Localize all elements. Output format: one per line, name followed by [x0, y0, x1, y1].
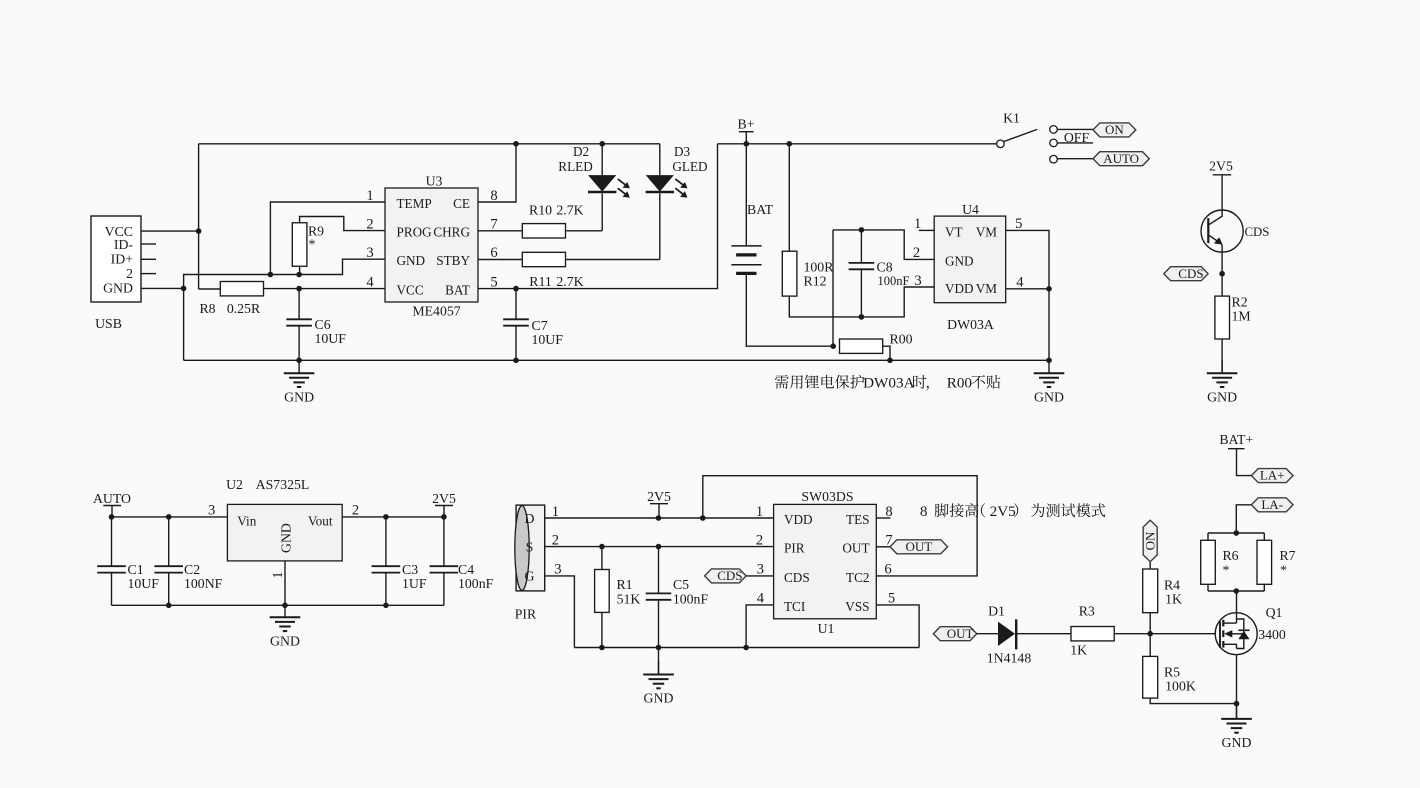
svg-text:100K: 100K [1165, 678, 1196, 693]
svg-text:R11: R11 [529, 274, 552, 289]
svg-text:AUTO: AUTO [1103, 151, 1139, 166]
svg-text:2: 2 [913, 245, 920, 261]
svg-text:1M: 1M [1232, 308, 1251, 323]
svg-text:D: D [525, 511, 535, 526]
svg-text:AS7325L: AS7325L [256, 477, 310, 492]
svg-text:GND: GND [103, 281, 133, 296]
svg-text:R00: R00 [890, 331, 913, 346]
svg-text:2V5: 2V5 [990, 503, 1016, 520]
svg-text:4: 4 [757, 591, 765, 607]
svg-text:PIR: PIR [784, 541, 805, 556]
svg-text:51K: 51K [617, 591, 641, 606]
svg-text:R6: R6 [1222, 548, 1238, 563]
svg-text:5: 5 [888, 591, 895, 607]
svg-text:C8: C8 [877, 260, 893, 275]
svg-text:OUT: OUT [905, 539, 932, 554]
svg-text:GND: GND [279, 523, 294, 553]
svg-text:GND: GND [1207, 389, 1237, 404]
svg-text:C5: C5 [673, 577, 689, 592]
svg-text:BAT: BAT [445, 283, 470, 298]
svg-text:2V5: 2V5 [647, 489, 671, 504]
svg-text:R3: R3 [1079, 603, 1095, 618]
svg-text:ID-: ID- [114, 237, 134, 252]
svg-text:R8: R8 [199, 301, 215, 316]
svg-text:USB: USB [95, 316, 122, 331]
svg-text:CDS: CDS [1178, 266, 1203, 281]
svg-text:6: 6 [490, 245, 497, 261]
svg-text:R2: R2 [1232, 294, 1248, 309]
svg-text:OFF: OFF [1064, 130, 1090, 145]
svg-text:U1: U1 [818, 621, 835, 636]
svg-text:7: 7 [490, 216, 497, 232]
svg-text:R7: R7 [1279, 548, 1295, 563]
svg-text:2V5: 2V5 [432, 491, 456, 506]
svg-text:ON: ON [1105, 122, 1124, 137]
svg-text:DW03A: DW03A [863, 375, 914, 392]
svg-text:1UF: 1UF [402, 576, 427, 591]
svg-text:BAT+: BAT+ [1219, 432, 1253, 447]
svg-text:C2: C2 [184, 562, 200, 577]
svg-text:D3: D3 [674, 144, 691, 159]
svg-text:2: 2 [126, 266, 133, 281]
svg-text:VSS: VSS [845, 599, 869, 614]
svg-text:2.7K: 2.7K [556, 203, 583, 218]
svg-text:TC2: TC2 [846, 570, 869, 585]
svg-text:U2: U2 [226, 477, 243, 492]
svg-text:GND: GND [1034, 389, 1064, 404]
svg-text:C1: C1 [128, 562, 144, 577]
svg-text:R12: R12 [804, 273, 827, 288]
svg-text:ON: ON [1142, 531, 1157, 550]
svg-text:CDS: CDS [717, 568, 742, 583]
svg-text:*: * [1280, 562, 1287, 577]
svg-text:STBY: STBY [436, 253, 470, 268]
svg-text:C7: C7 [532, 318, 548, 333]
svg-text:GLED: GLED [672, 159, 707, 174]
svg-text:TCI: TCI [784, 599, 805, 614]
svg-text:CHRG: CHRG [433, 225, 470, 240]
svg-text:VM: VM [976, 224, 998, 239]
svg-text:VM: VM [976, 281, 998, 296]
svg-text:Vin: Vin [237, 513, 256, 528]
svg-text:SW03DS: SW03DS [801, 489, 853, 504]
svg-text:5: 5 [1015, 216, 1022, 232]
svg-text:100nF: 100nF [458, 576, 494, 591]
svg-text:BAT: BAT [747, 202, 774, 217]
svg-text:PROG: PROG [397, 225, 433, 240]
svg-text:1: 1 [366, 188, 373, 204]
svg-text:4: 4 [1016, 275, 1024, 291]
svg-text:GND: GND [284, 389, 314, 404]
svg-text:R1: R1 [616, 577, 632, 592]
svg-text:2: 2 [366, 216, 373, 232]
svg-text:CE: CE [453, 196, 470, 211]
svg-text:VDD: VDD [784, 512, 813, 527]
svg-text:8: 8 [885, 504, 892, 520]
svg-text:VCC: VCC [397, 283, 424, 298]
svg-text:R10: R10 [529, 203, 552, 218]
svg-text:OUT: OUT [842, 541, 869, 556]
svg-text:U4: U4 [962, 202, 979, 217]
svg-text:100NF: 100NF [184, 576, 223, 591]
svg-text:ME4057: ME4057 [412, 303, 460, 318]
svg-text:1: 1 [270, 572, 285, 579]
svg-text:CDS: CDS [1245, 225, 1270, 239]
svg-text:K1: K1 [1003, 110, 1020, 125]
svg-text:Vout: Vout [308, 513, 333, 528]
svg-text:DW03A: DW03A [947, 317, 994, 332]
svg-text:*: * [309, 236, 316, 251]
svg-text:G: G [525, 569, 535, 584]
svg-text:1: 1 [914, 216, 921, 232]
svg-text:*: * [1223, 562, 1230, 577]
svg-text:GND: GND [945, 253, 974, 268]
svg-text:C4: C4 [458, 562, 474, 577]
svg-text:3400: 3400 [1258, 627, 1286, 642]
svg-text:U3: U3 [426, 173, 443, 188]
svg-text:GND: GND [1222, 735, 1252, 750]
svg-text:3: 3 [554, 562, 561, 578]
svg-text:2: 2 [756, 532, 763, 548]
svg-text:VT: VT [945, 224, 963, 239]
svg-text:10UF: 10UF [128, 576, 160, 591]
svg-text:10UF: 10UF [532, 332, 564, 347]
svg-text:GND: GND [644, 691, 674, 706]
svg-text:AUTO: AUTO [93, 491, 131, 506]
svg-text:100nF: 100nF [673, 591, 709, 606]
svg-text:LA+: LA+ [1260, 468, 1285, 483]
svg-text:TEMP: TEMP [397, 196, 432, 211]
svg-text:S: S [526, 539, 534, 554]
svg-text:ID+: ID+ [111, 251, 134, 266]
svg-text:OUT: OUT [947, 626, 974, 641]
svg-text:2V5: 2V5 [1209, 159, 1233, 174]
svg-text:0.25R: 0.25R [227, 301, 261, 316]
svg-text:100nF: 100nF [878, 274, 910, 288]
svg-text:3: 3 [366, 245, 373, 261]
svg-text:1N4148: 1N4148 [987, 650, 1032, 665]
svg-text:Q1: Q1 [1266, 605, 1283, 620]
svg-text:3: 3 [757, 562, 764, 578]
svg-text:LA-: LA- [1261, 497, 1283, 512]
svg-text:8: 8 [920, 503, 928, 520]
svg-text:6: 6 [884, 562, 891, 578]
svg-text:GND: GND [397, 253, 426, 268]
svg-text:VDD: VDD [945, 281, 974, 296]
svg-text:D1: D1 [988, 603, 1005, 618]
svg-text:PIR: PIR [515, 606, 537, 621]
svg-text:1: 1 [756, 504, 763, 520]
svg-text:B+: B+ [738, 116, 755, 131]
svg-text:C3: C3 [402, 562, 418, 577]
svg-text:TES: TES [846, 512, 869, 527]
svg-text:4: 4 [366, 274, 374, 290]
svg-text:R00: R00 [947, 375, 973, 392]
svg-text:1K: 1K [1165, 592, 1182, 607]
svg-text:D2: D2 [573, 144, 589, 159]
svg-text:7: 7 [885, 533, 892, 549]
svg-text:3: 3 [914, 273, 921, 289]
svg-text:C6: C6 [315, 317, 331, 332]
svg-text:10UF: 10UF [315, 331, 347, 346]
svg-text:100R: 100R [804, 259, 835, 274]
svg-text:RLED: RLED [558, 159, 592, 174]
svg-text:GND: GND [270, 633, 300, 648]
svg-text:R4: R4 [1164, 577, 1180, 592]
svg-text:2.7K: 2.7K [556, 274, 583, 289]
svg-text:R5: R5 [1164, 664, 1180, 679]
svg-text:1: 1 [552, 504, 559, 520]
svg-text:1K: 1K [1070, 642, 1087, 657]
svg-text:CDS: CDS [784, 570, 810, 585]
svg-text:2: 2 [552, 532, 559, 548]
